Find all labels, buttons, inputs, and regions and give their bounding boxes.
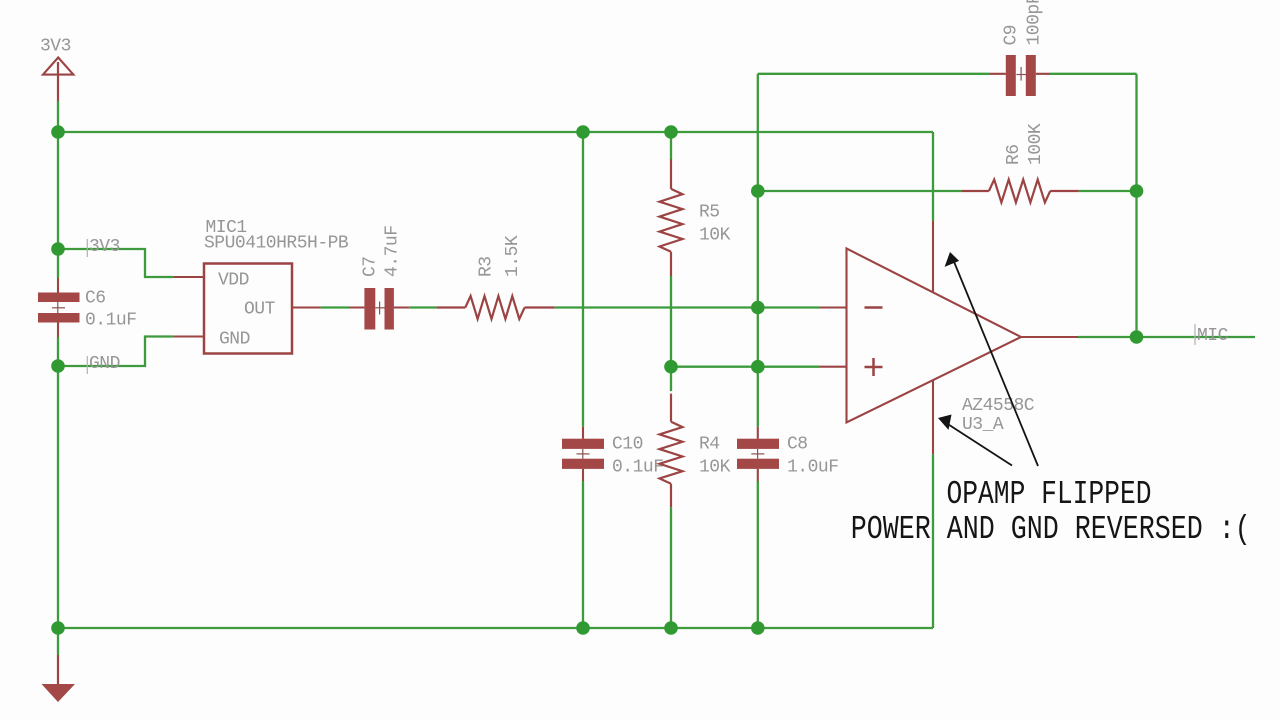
wire R5 to plus node bbox=[670, 276, 672, 391]
svg-text:C9: C9 bbox=[1002, 25, 1022, 46]
svg-text:OUT: OUT bbox=[244, 300, 276, 320]
wire left vertical lower bbox=[57, 337, 59, 655]
wire 3V3 vertical into bus bbox=[57, 101, 59, 132]
svg-text:GND: GND bbox=[89, 354, 120, 374]
svg-text:U3_A: U3_A bbox=[962, 415, 1004, 435]
capacitor C7 bbox=[349, 288, 409, 330]
svg-text:C6: C6 bbox=[85, 289, 106, 309]
svg-text:0.1uF: 0.1uF bbox=[612, 458, 664, 478]
wire OUT to C7 bbox=[321, 306, 349, 308]
svg-text:SPU0410HR5H-PB: SPU0410HR5H-PB bbox=[204, 234, 349, 254]
resistor R4 bbox=[660, 394, 683, 508]
svg-text:C8: C8 bbox=[787, 435, 808, 455]
svg-text:0.1uF: 0.1uF bbox=[85, 311, 137, 331]
capacitor C10 bbox=[562, 427, 604, 481]
svg-text:10K: 10K bbox=[699, 226, 731, 246]
svg-text:100K: 100K bbox=[1026, 123, 1046, 165]
capacitor C9 bbox=[990, 55, 1050, 96]
power flag 3V3 bbox=[43, 58, 73, 102]
capacitor C8 bbox=[737, 427, 779, 481]
wire right feedback vertical bbox=[1135, 74, 1137, 337]
wire R4 bottom bbox=[670, 507, 672, 628]
resistor R5 bbox=[660, 160, 683, 277]
wire R6 row bbox=[758, 190, 961, 192]
wire plus input horizontal bbox=[671, 366, 820, 368]
wire R3 to opamp minus input bbox=[555, 306, 820, 308]
wire opamp power top bbox=[932, 132, 934, 221]
wire GND tap to MIC GND bbox=[58, 337, 173, 367]
svg-text:4.7uF: 4.7uF bbox=[383, 225, 403, 277]
svg-text:R4: R4 bbox=[699, 435, 720, 455]
ground symbol bbox=[42, 655, 76, 702]
svg-text:1.0uF: 1.0uF bbox=[787, 458, 839, 478]
svg-text:R5: R5 bbox=[699, 203, 720, 223]
resistor R6 bbox=[961, 180, 1079, 203]
wire output bbox=[1078, 336, 1255, 338]
wire top bus bbox=[58, 131, 933, 133]
net label GND bbox=[87, 354, 120, 374]
svg-text:C7: C7 bbox=[361, 256, 381, 277]
capacitor C6 bbox=[38, 278, 80, 337]
wire R5 column top bbox=[670, 132, 672, 160]
wire C9 to right vertical bbox=[1050, 73, 1137, 75]
svg-text:POWER AND GND REVERSED :(: POWER AND GND REVERSED :( bbox=[851, 511, 1251, 548]
mic U=MIC1 box bbox=[173, 264, 320, 354]
svg-text:10K: 10K bbox=[699, 458, 731, 478]
svg-text:MIC: MIC bbox=[1197, 326, 1229, 346]
net label MIC bbox=[1195, 324, 1229, 346]
wire 3V3 tap to MIC VDD bbox=[58, 249, 173, 277]
wire opamp power bottom bbox=[932, 454, 934, 628]
svg-text:AZ4558C: AZ4558C bbox=[962, 396, 1035, 416]
wire R6 to right vertical bbox=[1079, 190, 1137, 192]
wire mid vertical C10 column lower bbox=[582, 481, 584, 628]
svg-text:100pF: 100pF bbox=[1025, 0, 1045, 46]
svg-text:3V3: 3V3 bbox=[89, 237, 120, 257]
svg-text:C10: C10 bbox=[612, 435, 643, 455]
annotation arrow 2 bbox=[938, 415, 1012, 466]
wire C8 column lower bbox=[757, 481, 759, 628]
svg-text:1.5K: 1.5K bbox=[503, 235, 523, 277]
svg-text:GND: GND bbox=[219, 329, 250, 349]
wire bottom bus bbox=[58, 627, 933, 629]
wire C7 to R3 bbox=[409, 306, 436, 308]
wire C8 column (feedback tap) upper bbox=[757, 74, 759, 427]
wire mid vertical C10 column upper bbox=[582, 132, 584, 427]
resistor R3 bbox=[437, 296, 555, 319]
wire feedback top horizontal bbox=[758, 73, 990, 75]
svg-text:R3: R3 bbox=[477, 256, 497, 277]
svg-text:OPAMP FLIPPED: OPAMP FLIPPED bbox=[947, 476, 1152, 513]
annotation arrow 1 bbox=[945, 252, 1038, 466]
svg-text:VDD: VDD bbox=[218, 270, 249, 290]
wire left vertical upper bbox=[57, 132, 59, 278]
svg-text:3V3: 3V3 bbox=[40, 37, 71, 57]
net label 3V3 bbox=[87, 237, 120, 257]
svg-text:R6: R6 bbox=[1004, 144, 1024, 165]
op-amp U3_A bbox=[820, 221, 1078, 454]
